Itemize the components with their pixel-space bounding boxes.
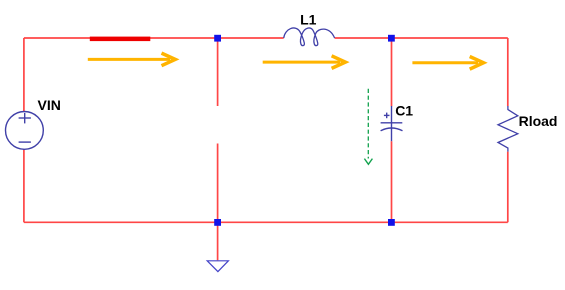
svg-text:C1: C1 xyxy=(395,103,413,119)
svg-text:L1: L1 xyxy=(300,12,317,28)
svg-text:VIN: VIN xyxy=(38,97,61,113)
svg-text:Rload: Rload xyxy=(519,113,558,129)
